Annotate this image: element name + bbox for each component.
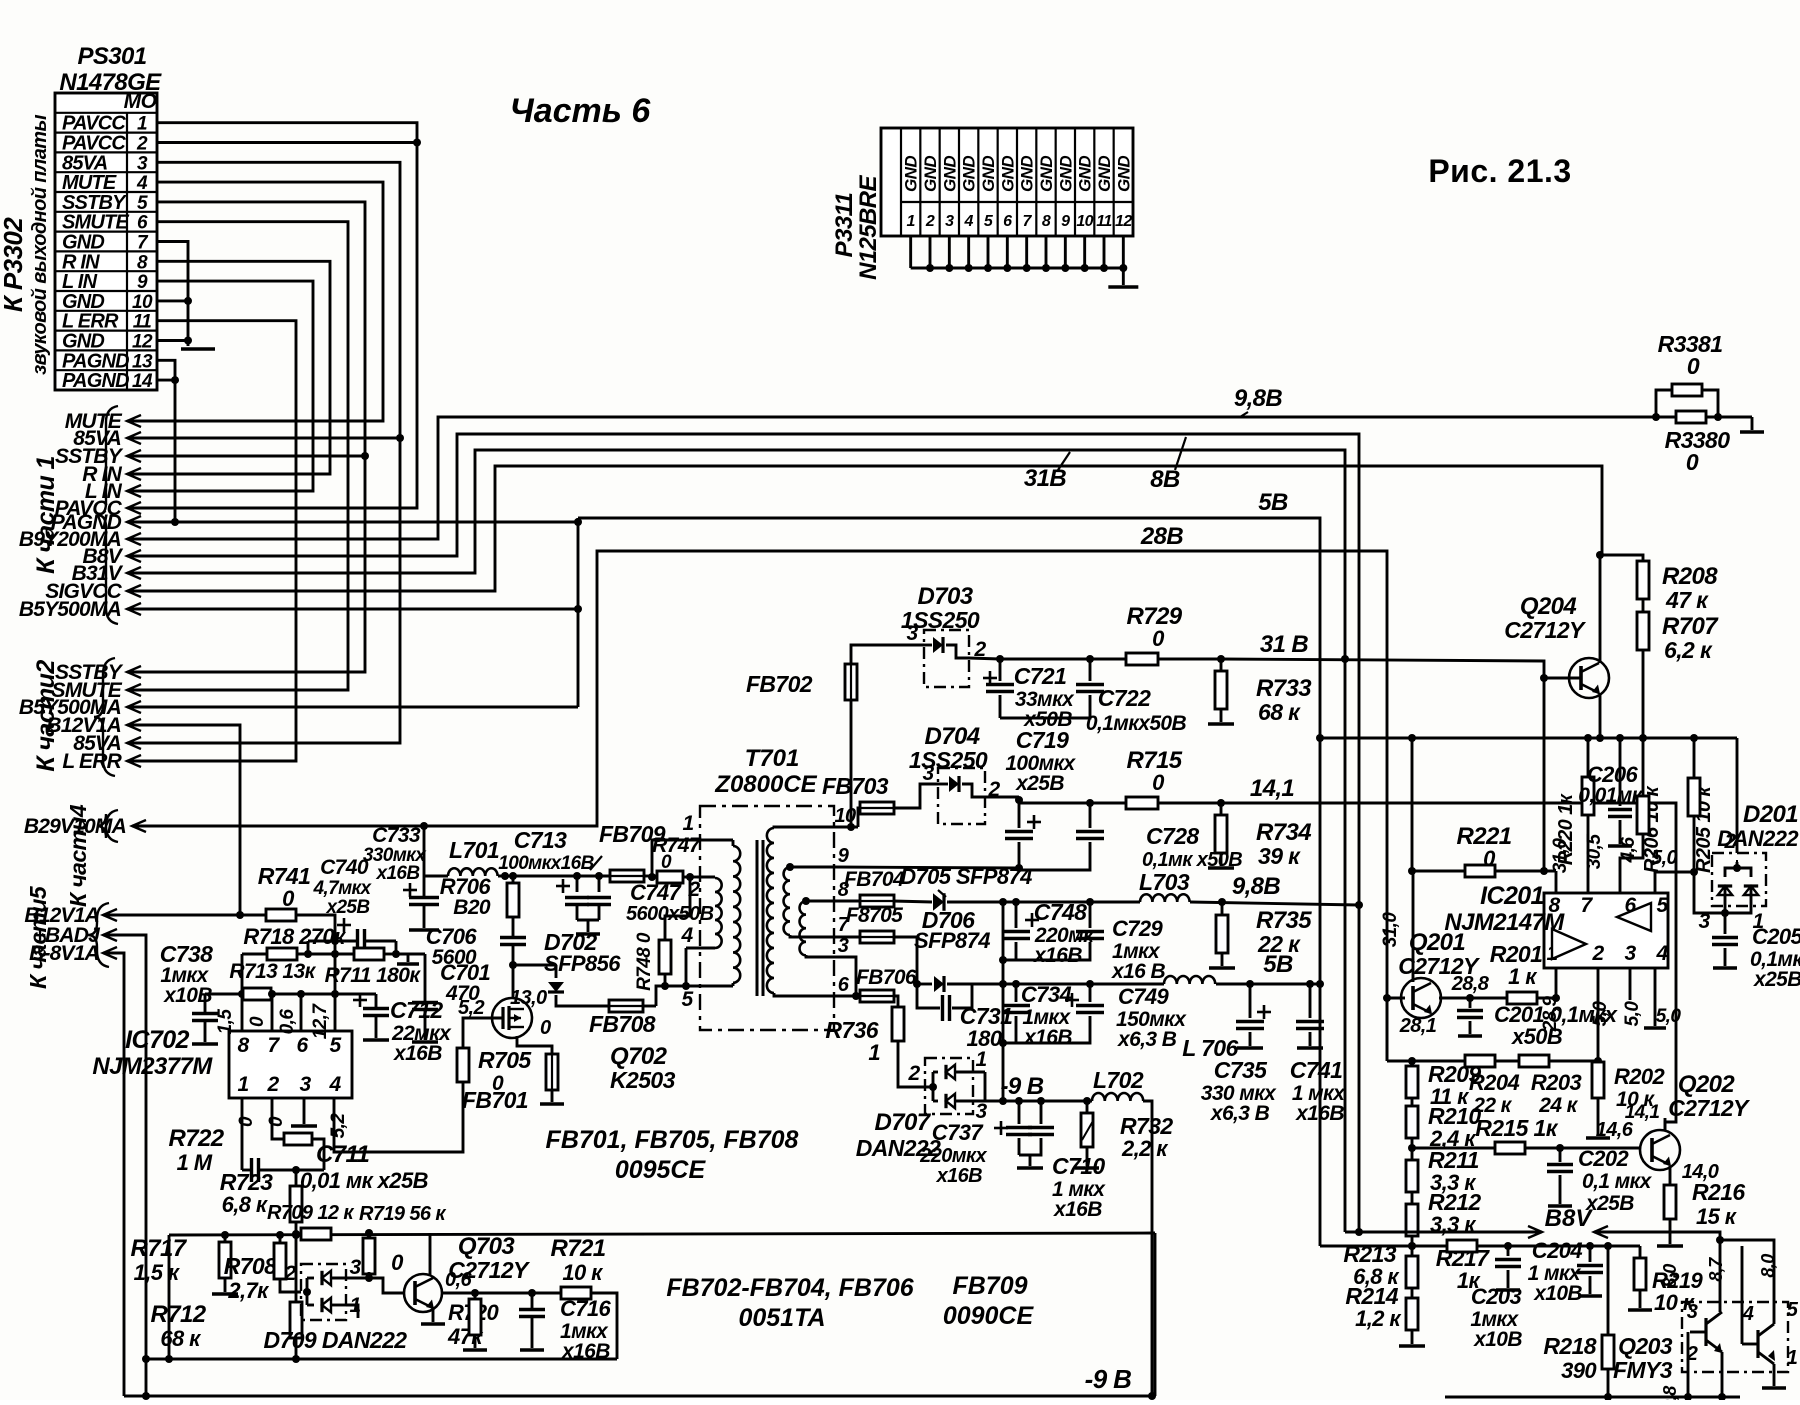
- svg-text:В8V: В8V: [1545, 1205, 1594, 1232]
- wire T701 pin1 row: [652, 840, 733, 877]
- rail SIGVCC: [127, 466, 1602, 591]
- wire IC702 pin4 loop to R705: [334, 1097, 463, 1152]
- rail 5V row: [999, 980, 1007, 988]
- svg-text:B29V10MA: B29V10MA: [24, 815, 126, 838]
- svg-text:1 к: 1 к: [1508, 964, 1538, 989]
- svg-text:FB708: FB708: [589, 1011, 656, 1037]
- svg-text:GND: GND: [1018, 156, 1037, 192]
- row 738 distribution: [1316, 734, 1324, 742]
- svg-text:220мкх: 220мкх: [919, 1145, 987, 1167]
- svg-text:10 к: 10 к: [562, 1260, 604, 1285]
- wire R718 left drop to pin8: [241, 954, 244, 1031]
- svg-text:3: 3: [945, 213, 954, 230]
- svg-text:4: 4: [1655, 942, 1668, 965]
- svg-text:1: 1: [682, 812, 693, 835]
- svg-text:х16В: х16В: [936, 1165, 983, 1187]
- svg-text:47 к: 47 к: [1665, 587, 1709, 613]
- svg-text:28В: 28В: [1140, 523, 1183, 550]
- diode network D709: [301, 1264, 346, 1320]
- svg-text:C740: C740: [320, 856, 369, 879]
- svg-text:0,6: 0,6: [277, 1009, 298, 1035]
- svg-text:8: 8: [137, 252, 148, 273]
- svg-text:К P3302: К P3302: [0, 217, 28, 312]
- svg-text:GND: GND: [1114, 156, 1133, 192]
- wire T701 pin5 row: [656, 986, 733, 1006]
- svg-text:C721: C721: [1014, 663, 1067, 689]
- wire D709 pin1 stub: [346, 1305, 358, 1318]
- svg-text:PAVCC: PAVCC: [62, 113, 126, 135]
- transformer T701 primary winding W1: [732, 840, 735, 846]
- svg-text:2,7к: 2,7к: [227, 1278, 270, 1303]
- svg-text:х16В: х16В: [1033, 944, 1082, 967]
- svg-text:6: 6: [137, 213, 148, 234]
- svg-text:1: 1: [907, 213, 916, 230]
- svg-text:390: 390: [1561, 1358, 1597, 1383]
- wire T701 pin2: [697, 876, 715, 879]
- svg-text:PAVCC: PAVCC: [62, 133, 126, 155]
- wire +BADJ: [103, 935, 146, 1396]
- ground GND pins: [181, 347, 215, 350]
- wire IC702 pin1: [241, 1098, 244, 1170]
- ground R3380: [1751, 417, 1754, 430]
- wire Q201 emitter row R201: [1439, 997, 1470, 1000]
- wire T701 pin10 row: [834, 826, 858, 829]
- svg-text:C2712Y: C2712Y: [1504, 617, 1587, 643]
- wire PAVCC pins 1-2: [127, 123, 417, 508]
- svg-text:х10В: х10В: [1473, 1328, 1522, 1351]
- wire Q702 gate: [463, 1018, 503, 1048]
- svg-text:0051TA: 0051TA: [738, 1304, 825, 1332]
- svg-text:Z0800CE: Z0800CE: [714, 771, 817, 798]
- svg-text:5,0: 5,0: [1622, 1001, 1643, 1027]
- svg-text:C204: C204: [1532, 1238, 1583, 1263]
- bottom rail right section: [1445, 1396, 1740, 1399]
- svg-text:C735: C735: [1214, 1057, 1268, 1083]
- svg-text:х50В: х50В: [1511, 1024, 1563, 1049]
- svg-text:15 к: 15 к: [1696, 1204, 1738, 1229]
- wire D709 pin3 to base: [346, 1277, 369, 1280]
- svg-text:5: 5: [1656, 894, 1668, 917]
- svg-text:13: 13: [132, 351, 153, 372]
- svg-text:х6,3 В: х6,3 В: [1117, 1028, 1177, 1051]
- connector PS301 table: [55, 93, 157, 390]
- Q203 internal transistor A: [1704, 1318, 1707, 1346]
- svg-text:звуковой выходной платы: звуковой выходной платы: [29, 115, 51, 375]
- svg-text:5600: 5600: [432, 946, 477, 969]
- svg-text:0: 0: [1686, 449, 1699, 475]
- svg-text:C741: C741: [1290, 1057, 1343, 1083]
- svg-text:L703: L703: [1139, 869, 1190, 895]
- svg-text:C719: C719: [1016, 727, 1069, 753]
- wire B12V1A chasti5 row: [103, 914, 240, 917]
- svg-text:C728: C728: [1146, 823, 1199, 849]
- svg-text:3: 3: [299, 1073, 311, 1096]
- svg-text:Q203: Q203: [1618, 1333, 1673, 1359]
- svg-text:C737: C737: [932, 1120, 985, 1145]
- svg-text:R722: R722: [169, 1125, 225, 1152]
- svg-text:6,2 к: 6,2 к: [1664, 637, 1713, 663]
- wire Q201 base: [1387, 997, 1405, 1000]
- svg-text:L ERR: L ERR: [62, 311, 119, 333]
- op-amp B triangle: [1552, 929, 1586, 959]
- svg-text:х25В: х25В: [1753, 968, 1800, 991]
- wire Q702 drain: [512, 965, 515, 998]
- wire Q703 collector: [429, 1233, 432, 1276]
- svg-text:3: 3: [922, 762, 934, 785]
- wire pin7 stub: [271, 994, 274, 1031]
- svg-text:6: 6: [1003, 213, 1012, 230]
- connector P3311 body: [881, 128, 1133, 236]
- svg-text:Q204: Q204: [1520, 593, 1577, 620]
- svg-text:8,0: 8,0: [1660, 1264, 1680, 1288]
- wire C740 left drop: [307, 941, 310, 954]
- svg-text:0: 0: [540, 1017, 551, 1039]
- svg-text:PS301: PS301: [77, 43, 146, 70]
- svg-text:5: 5: [1787, 1299, 1799, 1321]
- wire Q703 out row: [442, 1292, 475, 1295]
- svg-text:C748: C748: [1034, 899, 1087, 925]
- svg-text:10: 10: [132, 292, 153, 313]
- junction C713: [501, 872, 509, 880]
- svg-text:R718 270к: R718 270к: [243, 924, 347, 949]
- IC op-amp U702 box: [229, 1031, 352, 1098]
- svg-text:2: 2: [136, 134, 148, 155]
- svg-text:FB701, FB705, FB708: FB701, FB705, FB708: [546, 1126, 799, 1154]
- svg-text:R203: R203: [1531, 1070, 1582, 1095]
- svg-text:х6,3 В: х6,3 В: [1210, 1102, 1270, 1125]
- wire Q703 emitter ground: [432, 1308, 435, 1322]
- svg-text:FB702-FB704, FB706: FB702-FB704, FB706: [666, 1274, 914, 1302]
- group brace K chasti 2: [94, 658, 115, 776]
- svg-text:GND: GND: [960, 156, 979, 192]
- svg-text:0,6: 0,6: [445, 1269, 472, 1291]
- transformer T701 primary winding W2: [714, 877, 717, 878]
- svg-text:5,2: 5,2: [328, 1113, 349, 1139]
- svg-text:8: 8: [1548, 894, 1560, 917]
- svg-text:R708: R708: [224, 1253, 277, 1279]
- svg-text:MUTE: MUTE: [62, 172, 117, 194]
- svg-text:B5Y500MA: B5Y500MA: [19, 598, 121, 621]
- svg-text:3: 3: [1624, 942, 1636, 965]
- svg-text:C733: C733: [372, 824, 421, 847]
- svg-text:31,0: 31,0: [1550, 838, 1571, 874]
- svg-text:GND: GND: [62, 291, 104, 313]
- svg-text:R717: R717: [131, 1235, 188, 1262]
- svg-text:0: 0: [266, 1116, 287, 1127]
- svg-text:5: 5: [681, 988, 693, 1011]
- svg-text:L701: L701: [449, 837, 499, 863]
- svg-text:NJM2377M: NJM2377M: [92, 1053, 213, 1080]
- svg-text:R721: R721: [551, 1235, 606, 1262]
- wire 85VA pin 3: [127, 162, 400, 743]
- rail 14.1 row: [1018, 797, 1021, 803]
- svg-text:FB703: FB703: [822, 773, 889, 799]
- svg-text:0090CE: 0090CE: [943, 1302, 1035, 1330]
- wire pin6 stub: [300, 994, 303, 1031]
- svg-text:2: 2: [266, 1073, 279, 1096]
- svg-text:IC702: IC702: [125, 1026, 189, 1054]
- wire IC702 pin2: [272, 1098, 284, 1139]
- svg-text:D201: D201: [1743, 801, 1798, 828]
- wire PAGND pins 13-14: [127, 360, 175, 522]
- svg-text:х16В: х16В: [561, 1340, 610, 1363]
- svg-text:0,1мкх50В: 0,1мкх50В: [1086, 712, 1187, 735]
- svg-text:12: 12: [132, 332, 153, 353]
- svg-text:2: 2: [1591, 942, 1604, 965]
- rail 31V to B31V: [127, 450, 1345, 1232]
- wire IC201 pin2 to R202: [1597, 968, 1600, 1061]
- svg-text:В20: В20: [453, 896, 491, 919]
- svg-text:SMUTE: SMUTE: [62, 212, 129, 234]
- wire Q204 base: [1544, 677, 1581, 680]
- rail 28V to B29V10MA: [132, 551, 1387, 1061]
- svg-text:C734: C734: [1021, 982, 1072, 1007]
- resistor R741: [240, 914, 267, 917]
- svg-text:0: 0: [1152, 626, 1165, 651]
- resistor R3380: [1656, 416, 1676, 419]
- wire 28V drop to Q201 base: [1386, 998, 1389, 1061]
- svg-text:4,7мкх: 4,7мкх: [312, 878, 372, 899]
- svg-text:Q201: Q201: [1409, 929, 1466, 956]
- svg-text:1: 1: [237, 1073, 248, 1096]
- svg-text:D703: D703: [918, 583, 974, 610]
- capacitor C716: [475, 1292, 532, 1295]
- svg-text:0,01мк: 0,01мк: [1578, 784, 1643, 807]
- wire IC201 pin1: [1555, 968, 1558, 998]
- svg-text:R208: R208: [1662, 563, 1718, 590]
- svg-text:11: 11: [1096, 213, 1112, 230]
- svg-text:14,1: 14,1: [1250, 775, 1295, 802]
- svg-text:5: 5: [137, 193, 148, 214]
- capacitor C711: [242, 1169, 250, 1172]
- svg-text:GND: GND: [998, 156, 1017, 192]
- pin stubs IC201 top: [1555, 871, 1558, 893]
- svg-text:11: 11: [133, 312, 152, 333]
- svg-text:FB702: FB702: [746, 671, 813, 697]
- svg-text:6: 6: [296, 1034, 308, 1057]
- svg-text:5В: 5В: [1258, 489, 1288, 516]
- svg-text:R709 12 к: R709 12 к: [267, 1202, 354, 1224]
- svg-text:4: 4: [680, 924, 693, 947]
- svg-text:7: 7: [267, 1034, 280, 1057]
- wire SMUTE pin 6: [127, 222, 348, 690]
- svg-text:C203: C203: [1471, 1284, 1522, 1309]
- svg-text:5В: 5В: [1263, 951, 1293, 978]
- svg-text:2: 2: [1723, 830, 1736, 853]
- svg-text:х16В: х16В: [1023, 1026, 1072, 1049]
- svg-text:4: 4: [1742, 1303, 1754, 1325]
- svg-text:D704: D704: [925, 723, 980, 750]
- svg-text:х16В: х16В: [393, 1042, 442, 1065]
- svg-text:IC201: IC201: [1480, 882, 1544, 910]
- svg-text:6: 6: [838, 974, 850, 996]
- svg-text:GND: GND: [1037, 156, 1056, 192]
- main row R709: [169, 1233, 1155, 1235]
- svg-text:Часть 6: Часть 6: [510, 92, 652, 130]
- capacitor C747: [556, 885, 570, 888]
- transformer T701 boundary: [700, 806, 834, 1030]
- svg-text:R705: R705: [478, 1047, 532, 1073]
- svg-text:х25В: х25В: [1585, 1192, 1634, 1215]
- svg-text:SSTBY: SSTBY: [62, 192, 127, 214]
- svg-text:39 к: 39 к: [1258, 843, 1301, 869]
- svg-text:Q202: Q202: [1678, 1071, 1736, 1098]
- svg-text:28,8: 28,8: [1451, 973, 1490, 995]
- svg-text:FB704: FB704: [844, 868, 905, 891]
- svg-text:4: 4: [136, 173, 148, 194]
- wire Q202 collector: [1664, 1118, 1667, 1131]
- svg-text:C722: C722: [1098, 685, 1151, 711]
- svg-text:C2712Y: C2712Y: [1668, 1095, 1751, 1121]
- svg-text:MO: MO: [124, 90, 157, 113]
- svg-text:R707: R707: [1662, 613, 1719, 640]
- transformer T701 secondary W3: [767, 828, 774, 993]
- svg-text:3: 3: [349, 1256, 361, 1279]
- wire pin5 to R205: [1655, 872, 1694, 893]
- svg-text:1,5: 1,5: [215, 1009, 236, 1035]
- svg-text:R734: R734: [1256, 819, 1311, 846]
- svg-text:4: 4: [964, 213, 974, 230]
- svg-text:C729: C729: [1112, 916, 1164, 941]
- svg-text:1: 1: [137, 114, 147, 135]
- wire R741 to C740 node: [295, 915, 335, 994]
- wire pin9 common row: [834, 867, 1019, 868]
- wire Q201 collector: [1412, 871, 1415, 982]
- vertical common line: [1002, 902, 1005, 1101]
- svg-text:14: 14: [132, 371, 153, 392]
- wire Q204 collector: [1599, 555, 1602, 663]
- svg-text:Q702: Q702: [610, 1043, 668, 1070]
- svg-text:FB709: FB709: [952, 1272, 1027, 1300]
- svg-text:GND: GND: [1056, 156, 1075, 192]
- group brace K chasti 4: [97, 810, 118, 842]
- svg-text:FMY3: FMY3: [1613, 1357, 1673, 1383]
- wire SSTBY pin 5: [127, 202, 365, 672]
- svg-text:9,8В: 9,8В: [1232, 873, 1281, 900]
- svg-text:х16В: х16В: [1053, 1198, 1102, 1221]
- capacitor C721: [983, 677, 997, 680]
- svg-text:GND: GND: [902, 156, 921, 192]
- svg-text:0: 0: [282, 886, 295, 911]
- svg-text:1,2 к: 1,2 к: [1355, 1306, 1402, 1331]
- svg-text:PAGND: PAGND: [62, 350, 129, 372]
- svg-text:6,8 к: 6,8 к: [222, 1192, 269, 1217]
- svg-text:R215 1к: R215 1к: [1475, 1115, 1559, 1141]
- svg-text:GND: GND: [62, 331, 104, 353]
- svg-text:х25В: х25В: [325, 897, 370, 918]
- svg-text:30,5: 30,5: [1584, 834, 1605, 870]
- svg-text:х16В: х16В: [1295, 1102, 1344, 1125]
- connector P3311 ground bus: [909, 236, 912, 268]
- svg-text:R733: R733: [1256, 675, 1312, 702]
- svg-text:0,1 мкх: 0,1 мкх: [1582, 1170, 1653, 1193]
- svg-text:28,1: 28,1: [1399, 1015, 1437, 1037]
- transformer T701 secondary W5: [800, 901, 806, 955]
- svg-text:SFP874: SFP874: [914, 928, 990, 953]
- svg-text:5,0: 5,0: [1651, 847, 1677, 869]
- wire B-8V1A: [103, 953, 124, 1396]
- rail 5V to B5Y500MA: [127, 608, 578, 611]
- svg-text:C710: C710: [1052, 1153, 1105, 1179]
- wire T701 pin4: [686, 947, 715, 950]
- svg-text:R216: R216: [1692, 1179, 1745, 1205]
- capacitor C731 snubber: [917, 984, 940, 1008]
- svg-text:GND: GND: [1095, 156, 1114, 192]
- svg-text:8: 8: [1042, 213, 1051, 230]
- svg-text:85VA: 85VA: [62, 152, 107, 174]
- svg-text:2: 2: [907, 1062, 920, 1085]
- svg-text:2,2 к: 2,2 к: [1121, 1136, 1169, 1161]
- svg-text:R202: R202: [1614, 1064, 1666, 1089]
- svg-text:PAGND: PAGND: [62, 370, 129, 392]
- wire C740 right drop: [395, 941, 398, 954]
- transformer T701 core: [756, 840, 759, 996]
- svg-text:R735: R735: [1256, 907, 1312, 934]
- svg-text:-9 В: -9 В: [1001, 1073, 1044, 1100]
- rail 9.8V to B9Y200MA: [127, 417, 1656, 539]
- svg-text:9,8: 9,8: [1660, 1386, 1680, 1400]
- svg-text:7: 7: [1580, 894, 1593, 917]
- svg-text:GND: GND: [1076, 156, 1095, 192]
- wire Q702 source to FB701: [517, 1036, 552, 1056]
- transformer T701 secondary W4: [784, 867, 790, 935]
- svg-text:GND: GND: [940, 156, 959, 192]
- svg-text:T701: T701: [745, 745, 800, 772]
- svg-text:9: 9: [1061, 213, 1070, 230]
- svg-text:0: 0: [1687, 353, 1700, 379]
- svg-text:GND: GND: [62, 232, 104, 254]
- svg-text:0: 0: [1152, 770, 1165, 795]
- svg-text:C711: C711: [316, 1141, 369, 1168]
- svg-text:Q703: Q703: [458, 1233, 516, 1260]
- svg-text:1 М: 1 М: [177, 1150, 213, 1175]
- svg-text:R747: R747: [652, 834, 702, 857]
- svg-text:R711 180к: R711 180к: [325, 964, 422, 987]
- svg-text:9: 9: [137, 272, 148, 293]
- svg-text:B-8V1A: B-8V1A: [29, 942, 99, 965]
- svg-text:C202: C202: [1578, 1146, 1630, 1171]
- svg-text:N125BRE: N125BRE: [855, 174, 882, 279]
- ground P3311: [1122, 268, 1125, 285]
- svg-text:K2503: K2503: [610, 1067, 676, 1093]
- svg-text:3: 3: [1687, 1301, 1698, 1323]
- svg-text:R713 13к: R713 13к: [229, 960, 316, 983]
- svg-text:5,2: 5,2: [458, 997, 484, 1019]
- svg-text:68 к: 68 к: [160, 1326, 202, 1351]
- svg-text:C713: C713: [514, 827, 567, 853]
- svg-text:5,0: 5,0: [1656, 1006, 1682, 1027]
- svg-text:10: 10: [1076, 213, 1093, 230]
- svg-text:L702: L702: [1093, 1067, 1144, 1093]
- svg-text:R748 0: R748 0: [634, 932, 655, 991]
- svg-text:х10В: х10В: [1533, 1282, 1582, 1305]
- bottom box right edge: [1154, 1233, 1157, 1396]
- IC op-amp U201 box: [1544, 893, 1668, 968]
- svg-text:0: 0: [247, 1016, 268, 1027]
- wire B12V1A chasti2 drop: [127, 725, 240, 915]
- svg-text:FB706: FB706: [856, 966, 917, 989]
- rail 31V continues: [1221, 659, 1544, 871]
- svg-text:х25В: х25В: [1015, 772, 1064, 795]
- rail 8V to B8V: [127, 434, 1359, 1232]
- svg-text:0,01 мк х25В: 0,01 мк х25В: [300, 1168, 429, 1193]
- bottom internal rail: [146, 1358, 617, 1361]
- svg-text:D707: D707: [875, 1109, 932, 1136]
- svg-text:5: 5: [329, 1034, 341, 1057]
- svg-text:L IN: L IN: [62, 271, 98, 293]
- rail 14.1 continues to Q202: [1221, 803, 1676, 1130]
- Q203 external wires: [1719, 1262, 1722, 1312]
